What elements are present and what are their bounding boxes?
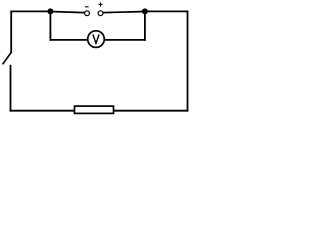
wire left rail lower: [10, 65, 12, 112]
label minus sign: [85, 6, 89, 8]
voltmeter V: [88, 31, 105, 48]
wire stub to minus terminal: [50, 12, 84, 13]
node left junction: [48, 9, 52, 13]
wire left rail upper: [10, 11, 12, 53]
wire top-right horizontal: [145, 10, 189, 12]
wire top-left horizontal: [10, 10, 51, 12]
terminal minus: [85, 11, 90, 16]
wire left voltmeter drop: [49, 11, 51, 40]
wire voltmeter left rail: [50, 39, 88, 41]
wire voltmeter right rail: [105, 39, 146, 41]
label plus sign: [98, 2, 102, 6]
wire bottom-right horizontal: [114, 110, 188, 112]
wire right voltmeter drop: [144, 11, 146, 40]
node right junction: [143, 9, 147, 13]
wire bottom-left horizontal: [10, 110, 74, 112]
switch blade (open): [3, 52, 12, 64]
resistor R: [75, 106, 114, 113]
wire right rail: [187, 11, 189, 112]
terminal plus: [98, 11, 103, 16]
wire stub from plus terminal: [103, 12, 145, 13]
